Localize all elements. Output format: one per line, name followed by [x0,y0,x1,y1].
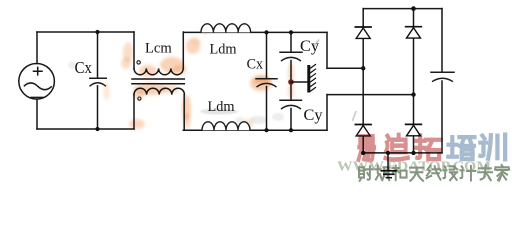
earth ground bar 3 [386,177,392,179]
wire bridge left leg [362,9,364,153]
wire step down horizontal [327,67,363,69]
watermark char jia 家 [495,165,509,181]
earth ground stub [387,153,389,171]
earth ground bar 2 [383,173,395,175]
capacitor Cx1 top lead [97,32,99,78]
highlight smudge [121,57,131,69]
junction dot Cx2 top [264,30,268,34]
capacitor Cy1 flat plate [280,51,302,53]
inductor Ldm2 [202,122,250,130]
wire bridge bottom rail [363,152,442,154]
watermark char she2 设 [443,166,457,180]
inductor Ldm1 [201,24,251,33]
choke Lcm phase dot primary [137,61,140,64]
ac source V1 circle [19,64,55,100]
capacitor Cx1 curved plate [90,83,107,87]
choke Lcm right lead upper [182,32,184,68]
capacitor Cy2 bottom lead [290,109,292,131]
choke Lcm right lead lower [183,95,185,130]
highlight smudge [161,84,179,94]
wire top rail left segment [37,31,134,33]
highlight smudge [288,83,294,99]
svg-text:Cx: Cx [247,56,264,72]
highlight smudge [272,113,284,121]
grey mark [314,40,320,48]
highlight smudge [192,38,200,46]
watermark char di 迪 [385,135,407,160]
wire bottom rail left segment [37,128,134,130]
diode D2 cathode bar [405,26,422,28]
grey mark 2 [353,111,357,121]
watermark char she 射 [359,166,372,181]
capacitor Cy1 curved plate [281,57,301,61]
junction dot left leg mid [361,66,365,70]
capacitor Cx1 bottom lead [97,86,99,129]
highlight smudge [235,117,245,125]
chassis ground bar [307,65,310,93]
highlight smudge [173,65,187,75]
junction dot bottom rail left leg [361,151,365,155]
choke Lcm phase dot secondary [138,97,141,100]
junction dot Cy middle (dark red) [288,79,294,85]
watermark char pin 频 [375,166,389,180]
svg-text:Ldm: Ldm [208,99,236,115]
junction dot bottom rail ground tap [386,151,390,155]
capacitor Cy1 top lead [290,32,292,52]
highlight smudge [200,109,238,115]
capacitor Cout bottom lead [441,81,443,153]
svg-text:Ldm: Ldm [210,41,238,57]
highlight smudge [183,113,191,129]
diode D3 triangle [356,126,370,136]
junction dot Cx1 top [95,30,99,34]
watermark char yi 易 [359,136,375,160]
wire to chassis ground [291,81,308,83]
choke Lcm left lead lower [133,95,135,129]
highlight smudge [134,83,166,95]
diode D1 triangle [356,28,370,38]
junction dot bottom rail right leg [411,151,415,155]
junction dot right leg mid [411,92,415,96]
highlight smudge [250,75,272,91]
chassis ground hatching [310,64,316,91]
highlight smudge [288,63,294,83]
capacitor Cx2 bottom lead [266,87,268,131]
wire step down vertical [326,32,328,68]
junction dot Cy bottom [289,128,293,132]
choke Lcm left lead upper [133,32,135,68]
wire left vertical lower [36,99,38,129]
svg-text:Cy: Cy [304,107,323,124]
capacitor Cout top lead [441,9,443,72]
wire left vertical upper [36,32,38,63]
watermark char ji 计 [461,166,476,181]
watermark char tian 天 [410,168,423,181]
highlight smudge [201,26,209,34]
watermark char pei 培 [448,137,474,159]
capacitor Cx2 curved plate [257,83,277,87]
highlight smudge [182,95,191,121]
choke Lcm primary winding [134,68,183,74]
choke Lcm secondary winding [134,88,184,94]
svg-text:Lcm: Lcm [145,40,173,56]
junction dot Cx1 bottom [95,127,99,131]
diode D2 triangle [407,28,421,38]
watermark char xun 训 [480,135,505,160]
earth ground bar 1 [381,170,398,172]
highlight smudge [123,42,133,62]
wire line to right leg [327,94,414,96]
capacitor Cx2 flat plate [256,78,277,80]
watermark char zhuan 专 [478,165,492,180]
diode D4 triangle [407,125,421,135]
highlight smudge [129,119,145,129]
junction dot top rail right leg [411,6,416,11]
diode D4 cathode bar [405,123,422,125]
diode D1 cathode bar [355,26,372,28]
ac source minus sign [31,96,43,98]
watermark char tuo 拓 [416,135,440,159]
capacitor Cout flat plate [431,71,454,73]
capacitor Cy2 curved plate [281,105,301,109]
capacitor Cy2 flat plate [280,99,302,101]
highlight smudge [133,89,145,99]
diode D3 cathode bar [355,124,372,126]
capacitor Cx1 flat plate [90,77,107,79]
junction dot Cx2 bottom [264,128,268,132]
capacitor Cout curved plate [432,78,453,81]
ac source plus sign [34,67,43,75]
wire bridge right leg [413,9,415,153]
wire Cy mid segment [290,61,292,101]
highlight smudge [186,38,200,54]
highlight smudge [254,77,270,83]
wire bottom rail middle [183,129,327,131]
junction dot Cy top [289,30,293,34]
watermark char he 和 [392,166,406,181]
highlight smudge [139,65,157,77]
highlight smudge [104,82,110,100]
watermark char xian 线 [427,166,441,180]
wire top rail middle [183,31,327,33]
svg-text:Cx: Cx [75,58,93,77]
choke Lcm core line 2 [132,83,184,85]
choke Lcm core line 1 [132,78,184,80]
capacitor Cx2 top lead [266,32,268,78]
highlight smudge [160,57,184,73]
svg-text:Cy: Cy [300,38,319,55]
highlight smudge [250,116,266,124]
wire step up vertical [326,95,328,131]
wire bridge top rail [363,8,442,10]
highlight smudge [243,119,253,129]
highlight smudge [68,61,76,69]
ac source sine wave [24,83,52,90]
